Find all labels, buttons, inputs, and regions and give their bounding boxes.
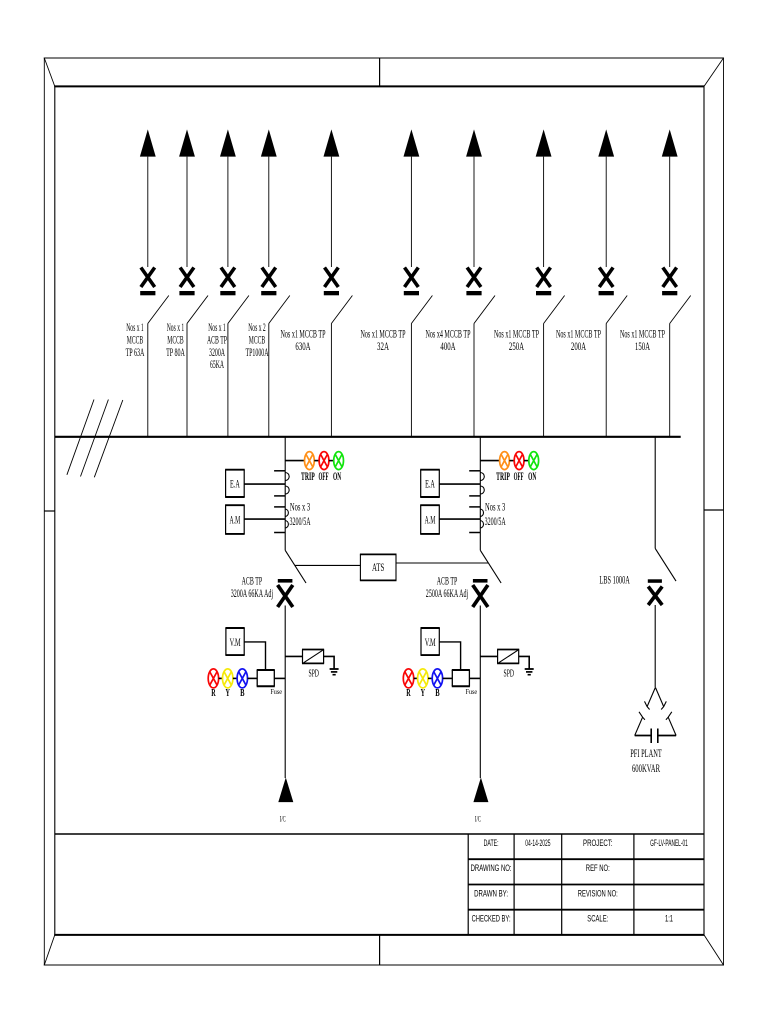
LBS isolating blade — [655, 548, 676, 581]
svg-text:150A: 150A — [635, 339, 650, 353]
feeder F6 wire to busbar — [410, 324, 412, 437]
feeder F1 label — [126, 320, 145, 359]
feeder F4 outgoing arrow — [261, 129, 277, 267]
feeder F7 isolator blade — [474, 296, 495, 324]
ACB incomer-1 indicator lamp branch wire — [285, 460, 304, 462]
ACB incomer-1 breaker X symbol — [278, 579, 293, 607]
svg-text:R: R — [211, 688, 216, 699]
feeder F2 breaker X symbol — [179, 268, 194, 296]
feeder F1 isolator blade — [148, 296, 169, 324]
svg-text:DATE:: DATE: — [484, 838, 499, 849]
svg-text:GF-LV-PANEL-01: GF-LV-PANEL-01 — [650, 838, 688, 849]
feeder F4 breaker X symbol — [261, 268, 276, 296]
svg-text:TP1000A: TP1000A — [246, 345, 269, 359]
svg-text:250A: 250A — [509, 339, 524, 353]
incomer-2 voltmeter connection wire — [439, 642, 460, 670]
svg-text:A.M: A.M — [425, 513, 436, 527]
incomer-2 phase lamp labels R Y B — [406, 688, 439, 699]
ACB incomer-2 CT secondary tick 4 — [469, 532, 480, 534]
svg-text:1:1: 1:1 — [665, 914, 673, 925]
feeder F1 wire to busbar — [147, 324, 149, 437]
svg-text:65KA: 65KA — [210, 357, 224, 371]
svg-text:200A: 200A — [571, 339, 586, 353]
svg-text:ON: ON — [528, 471, 537, 483]
feeder F9 wire to busbar — [605, 324, 607, 437]
feeder F7 breaker X symbol — [466, 268, 481, 296]
svg-text:R: R — [406, 688, 411, 699]
feeder F7 wire to busbar — [473, 324, 475, 437]
feeder F6 outgoing arrow — [404, 129, 420, 267]
incomer-1 phase lamp R (red) — [208, 669, 218, 688]
svg-text:PFI PLANT: PFI PLANT — [630, 746, 662, 760]
ACB incomer-1 lamp connector wire 2 — [329, 460, 334, 462]
ACB incomer-1 A.M connection wire — [244, 518, 285, 520]
ACB incomer-1 TRIP lamp (orange) — [305, 452, 315, 470]
feeder F8 outgoing arrow — [536, 129, 552, 267]
feeder F9 breaker X symbol — [599, 268, 614, 296]
feeder F8 label — [494, 327, 539, 353]
ACB incomer-2 lamp connector wire 1 — [509, 460, 514, 462]
incomer-1 SPD earth wire — [324, 656, 335, 668]
feeder F6 isolator blade — [411, 296, 432, 324]
incomer-2 phase lamp R (red) — [403, 669, 413, 688]
svg-text:SCALE:: SCALE: — [587, 914, 608, 925]
svg-text:I/C: I/C — [475, 814, 481, 824]
incomer-1 fuse to main wire — [274, 677, 285, 679]
svg-text:TRIP: TRIP — [496, 471, 510, 483]
incomer-1 voltmeter connection wire — [244, 642, 265, 670]
ACB incomer-2 lamp connector wire 2 — [524, 460, 529, 462]
frame zone mark right — [704, 509, 724, 511]
ACB incomer-2 ON lamp (green) — [529, 452, 539, 470]
feeder F6 breaker X symbol — [404, 268, 419, 296]
feeder F3 wire to busbar — [227, 324, 229, 437]
frame corner bevel bottom-right — [704, 935, 724, 965]
svg-text:B: B — [435, 688, 439, 699]
feeder F7 outgoing arrow — [466, 129, 482, 267]
ACB incomer-1 CT secondary tick 1 — [274, 470, 285, 472]
ATS wire from incomer-1 blade — [295, 564, 361, 566]
ACB incomer-1 CT winding arc 4 — [285, 521, 288, 529]
feeder F5 wire to busbar — [330, 324, 332, 437]
feeder F1 outgoing arrow — [140, 129, 156, 267]
incomer-2 phase lamp B (blue) — [432, 669, 442, 688]
incomer-2 SPD branch wire — [480, 655, 497, 657]
ACB incomer-2 CT winding arc 2 — [480, 486, 484, 494]
svg-text:TRIP: TRIP — [301, 471, 315, 483]
incomer-1 ground symbol — [330, 669, 339, 675]
feeder F5 breaker X symbol — [324, 268, 339, 296]
ACB incomer-1 CT winding arc 3 — [285, 509, 288, 517]
feeder F2 wire to busbar — [186, 324, 188, 437]
svg-text:Y: Y — [226, 688, 231, 699]
feeder F3 label — [207, 320, 227, 371]
ACB incomer-1 CT winding arc 1 — [285, 473, 289, 481]
ACB incomer-1 OFF lamp (red) — [319, 452, 329, 470]
svg-text:DRAWN BY:: DRAWN BY: — [474, 889, 508, 900]
svg-text:E.A: E.A — [425, 477, 435, 491]
feeder F3 breaker X symbol — [220, 268, 235, 296]
incomer-1 lamp connector Y-B — [233, 677, 237, 679]
ACB incomer incomer-2 wire from busbar — [479, 437, 481, 551]
ACB incomer-1 earth-fault relay box E.A — [225, 470, 245, 497]
feeder F8 wire to busbar — [543, 324, 545, 437]
svg-text:04-14-2025: 04-14-2025 — [525, 838, 550, 849]
LBS switch X symbol — [648, 579, 662, 605]
feeder F10 breaker X symbol — [662, 268, 677, 296]
ATS box — [360, 554, 397, 580]
ACB incomer-1 CT winding arc 2 — [285, 486, 289, 494]
feeder F9 outgoing arrow — [598, 129, 614, 267]
feeder F3 outgoing arrow — [220, 129, 236, 267]
ACB incomer-2 earth-fault relay box E.A — [420, 470, 440, 497]
feeder F4 wire to busbar — [268, 324, 270, 437]
svg-text:Fuse: Fuse — [465, 687, 477, 696]
ACB incomer-2 CT secondary tick 2 — [469, 495, 480, 497]
svg-text:Nos x 3: Nos x 3 — [485, 500, 505, 514]
main LV busbar — [55, 436, 681, 438]
svg-text:REF NO:: REF NO: — [586, 863, 610, 874]
ACB incomer-1 lamp connector wire 1 — [314, 460, 319, 462]
svg-text:Nos x 3: Nos x 3 — [290, 500, 310, 514]
svg-text:400A: 400A — [440, 339, 455, 353]
svg-text:TP 80A: TP 80A — [166, 345, 185, 359]
ACB incomer-2 TRIP lamp (orange) — [500, 452, 510, 470]
svg-text:3200A 66KA Adj: 3200A 66KA Adj — [231, 586, 273, 600]
svg-text:ON: ON — [333, 471, 342, 483]
feeder F10 isolator blade — [670, 296, 691, 324]
svg-text:3200/5A: 3200/5A — [290, 514, 311, 528]
PFI plant label — [630, 746, 662, 775]
LBS wire to PFI plant — [654, 605, 656, 687]
ACB incomer-1 CT label Nos x 3 3200/5A — [290, 500, 311, 528]
svg-text:I/C: I/C — [280, 814, 286, 824]
frame zone mark left — [44, 510, 55, 512]
feeder F8 breaker X symbol — [536, 268, 551, 296]
ACB incomer-1 isolating blade — [285, 550, 306, 583]
incomer-2 lamp wire B to fuse — [443, 677, 453, 679]
feeder F1 breaker X symbol — [140, 268, 155, 296]
svg-text:Fuse: Fuse — [270, 687, 282, 696]
incomer-1 lamp wire B to fuse — [248, 677, 258, 679]
svg-text:V.M: V.M — [230, 635, 241, 649]
ACB incomer-1 CT secondary tick 2 — [274, 495, 285, 497]
incomer-1 voltmeter box V.M — [225, 628, 244, 655]
svg-text:PROJECT:: PROJECT: — [583, 838, 613, 849]
ACB incomer-1 E.A connection wire — [244, 483, 285, 485]
ACB incomer-2 rating label — [426, 574, 468, 600]
incomer-1 SPD branch wire — [285, 655, 302, 657]
feeder F5 label — [281, 327, 326, 353]
ACB incomer-2 A.M connection wire — [439, 518, 480, 520]
incomer-2 incoming cable arrow I/C — [473, 778, 488, 803]
incomer-2 lamp connector R-Y — [414, 677, 418, 679]
feeder F9 isolator blade — [606, 296, 627, 324]
incomer-2 fuse to main wire — [469, 677, 480, 679]
ACB incomer-2 lamp labels TRIP OFF ON — [496, 471, 536, 483]
incomer-2 SPD surge protection device — [497, 650, 519, 664]
feeder F10 label — [620, 327, 665, 353]
svg-text:E.A: E.A — [230, 477, 240, 491]
feeder F9 label — [556, 327, 601, 353]
svg-text:600KVAR: 600KVAR — [632, 761, 660, 775]
feeder F6 label — [361, 327, 406, 353]
incoming supply phase slash 3 — [94, 400, 123, 477]
ACB incomer-2 E.A connection wire — [439, 483, 480, 485]
LBS wire from busbar — [654, 437, 656, 549]
incomer-2 phase lamp Y (yellow) — [418, 669, 428, 688]
ACB incomer-1 ON lamp (green) — [334, 452, 344, 470]
incomer-2 lamp connector Y-B — [428, 677, 432, 679]
ACB incomer-2 CT secondary tick 3 — [469, 506, 480, 508]
incomer-1 phase lamp labels R Y B — [211, 688, 244, 699]
frame corner bevel bottom-left — [44, 935, 55, 965]
ACB incomer incomer-1 wire from busbar — [284, 437, 286, 551]
PFI capacitor delta right side — [655, 687, 676, 735]
ACB incomer-2 ammeter box A.M — [420, 505, 440, 534]
feeder F3 isolator blade — [228, 296, 249, 324]
incomer-2 ground symbol — [525, 669, 534, 675]
feeder F5 isolator blade — [331, 296, 352, 324]
PFI capacitor bottom plates — [635, 729, 676, 744]
ACB incomer-1 ammeter box A.M — [225, 505, 245, 534]
ACB incomer-1 rating label — [231, 574, 273, 600]
svg-text:A.M: A.M — [230, 513, 241, 527]
svg-text:32A: 32A — [377, 339, 389, 353]
title block text — [471, 838, 688, 925]
ACB incomer-2 OFF lamp (red) — [514, 452, 524, 470]
svg-text:OFF: OFF — [514, 471, 524, 483]
svg-text:ATS: ATS — [372, 562, 384, 574]
feeder F10 wire to busbar — [669, 324, 671, 437]
feeder F2 outgoing arrow — [179, 129, 195, 267]
title block separator line — [55, 833, 704, 835]
ATS wire to incomer-2 blade — [396, 562, 488, 564]
feeder F2 label — [166, 320, 185, 359]
svg-text:2500A 66KA Adj: 2500A 66KA Adj — [426, 586, 468, 600]
incomer-1 phase lamp Y (yellow) — [223, 669, 233, 688]
svg-text:CHECKED BY:: CHECKED BY: — [472, 914, 511, 925]
svg-text:SPD: SPD — [504, 668, 515, 680]
svg-text:630A: 630A — [295, 339, 310, 353]
incomer-1 phase lamp B (blue) — [237, 669, 247, 688]
ACB incomer-2 isolating blade — [480, 550, 501, 583]
incomer-1 fuse box — [257, 670, 275, 686]
incoming supply phase slash 2 — [81, 400, 109, 477]
svg-text:TP 63A: TP 63A — [126, 345, 145, 359]
frame zone mark top — [379, 58, 381, 86]
ACB incomer-2 wire down to metering branch — [479, 606, 481, 779]
frame zone mark bottom — [379, 935, 381, 965]
incomer-1 incoming cable arrow I/C — [278, 778, 293, 803]
feeder F7 label — [426, 327, 471, 353]
incomer-2 SPD earth wire — [519, 656, 530, 668]
incomer-2 voltmeter box V.M — [421, 628, 440, 655]
feeder F2 isolator blade — [187, 296, 208, 324]
svg-text:REVISION NO:: REVISION NO: — [578, 889, 618, 900]
frame corner bevel top-right — [704, 58, 724, 86]
ACB incomer-1 CT secondary tick 3 — [274, 506, 285, 508]
title block table grid — [468, 834, 704, 935]
svg-text:3200/5A: 3200/5A — [485, 514, 506, 528]
ACB incomer-2 CT winding arc 3 — [480, 509, 483, 517]
incomer-1 SPD surge protection device — [302, 650, 324, 664]
PFI capacitor delta left side — [635, 687, 656, 735]
feeder F4 label — [246, 320, 269, 359]
feeder F5 outgoing arrow — [324, 129, 340, 267]
frame corner bevel top-left — [44, 58, 55, 86]
feeder F10 outgoing arrow — [662, 129, 678, 267]
ACB incomer-1 CT secondary tick 4 — [274, 532, 285, 534]
outer border frame — [44, 58, 724, 966]
incomer-2 fuse box — [452, 670, 470, 686]
inner border frame — [54, 86, 704, 936]
feeder F4 isolator blade — [269, 296, 290, 324]
incoming supply phase slash 1 — [67, 400, 94, 475]
incomer-1 lamp connector R-Y — [219, 677, 223, 679]
svg-text:SPD: SPD — [308, 668, 319, 680]
svg-text:B: B — [240, 688, 244, 699]
svg-text:LBS 1000A: LBS 1000A — [599, 575, 630, 587]
ACB incomer-2 CT secondary tick 1 — [469, 470, 480, 472]
svg-text:DRAWING NO:: DRAWING NO: — [471, 863, 512, 874]
svg-text:V.M: V.M — [425, 635, 436, 649]
ACB incomer-2 breaker X symbol — [473, 579, 488, 607]
svg-text:OFF: OFF — [319, 471, 329, 483]
ACB incomer-2 CT winding arc 4 — [480, 521, 483, 529]
svg-text:Y: Y — [421, 688, 426, 699]
ACB incomer-1 wire down to metering branch — [284, 606, 286, 779]
ACB incomer-1 lamp labels TRIP OFF ON — [301, 471, 341, 483]
ACB incomer-2 indicator lamp branch wire — [480, 460, 499, 462]
feeder F8 isolator blade — [544, 296, 565, 324]
ACB incomer-2 CT label Nos x 3 3200/5A — [485, 500, 506, 528]
ACB incomer-2 CT winding arc 1 — [480, 473, 484, 481]
